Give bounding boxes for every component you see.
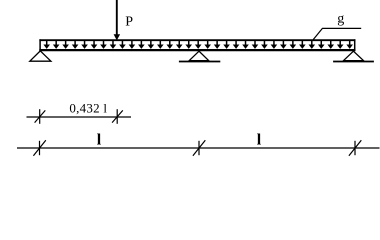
wire: distributed load arrow 33 head (346, 45, 353, 49)
bottom dimension left tick vertical (39, 141, 41, 155)
wire: distributed load arrow 23 shaft (254, 41, 256, 46)
wire: distributed load arrow 31 head (327, 45, 334, 49)
wire: distributed load arrow 7 shaft (103, 41, 105, 46)
wire: distributed load arrow 8 head (110, 45, 117, 49)
wire: distributed load arrow 16 shaft (188, 41, 190, 46)
point load P arrow shaft (116, 0, 118, 35)
wire: distributed load arrow 1 head (43, 45, 50, 49)
wire: distributed load arrow 24 shaft (263, 41, 265, 46)
dimension 0,432l left tick vertical (39, 109, 41, 124)
wire: distributed load arrow 17 head (195, 45, 202, 49)
wire: distributed load arrow 15 head (176, 45, 183, 49)
wire: distributed load arrow 11 head (138, 45, 145, 49)
point load P arrowhead (114, 34, 121, 40)
wire: distributed load arrow 5 shaft (84, 41, 86, 46)
wire: distributed load arrow 27 head (290, 45, 297, 49)
wire: distributed load arrow 14 shaft (169, 41, 171, 46)
wire: distributed load arrow 4 shaft (74, 41, 76, 46)
wire: distributed load arrow 27 shaft (292, 41, 294, 46)
bottom dimension middle tick vertical (198, 141, 200, 155)
dimension line 0,432 l (27, 116, 132, 118)
wire: distributed load arrow 32 shaft (339, 41, 341, 46)
wire: distributed load arrow 18 shaft (207, 41, 209, 46)
bottom dimension middle tick slash (193, 140, 205, 156)
wire: distributed load arrow 12 shaft (150, 41, 152, 46)
beam right end vertical edge (354, 39, 356, 51)
label g leader line (313, 28, 322, 39)
left support (pin) triangle (30, 51, 51, 61)
wire: distributed load arrow 3 shaft (65, 41, 67, 46)
bottom dimension line (spans l + l) (17, 147, 380, 149)
beam (thick horizontal member) (39, 49, 355, 51)
svg-text:l: l (97, 131, 102, 148)
wire: distributed load arrow 3 head (62, 45, 69, 49)
wire: distributed load arrow 21 shaft (235, 41, 237, 46)
wire: distributed load arrow 29 shaft (311, 41, 313, 46)
wire: distributed load arrow 10 head (129, 45, 136, 49)
label g underline (322, 27, 361, 29)
middle support (roller) triangle (189, 51, 209, 61)
wire: distributed load arrow 25 head (271, 45, 278, 49)
wire: distributed load arrow 4 head (72, 45, 79, 49)
wire: distributed load arrow 22 head (242, 45, 249, 49)
middle support ground line (179, 61, 220, 63)
wire: distributed load arrow 7 head (100, 45, 107, 49)
wire: distributed load arrow 6 shaft (93, 41, 95, 46)
wire: distributed load arrow 19 shaft (216, 41, 218, 46)
right support (roller) triangle (343, 51, 363, 61)
wire: distributed load arrow 9 shaft (121, 41, 123, 46)
wire: distributed load arrow 30 shaft (320, 41, 322, 46)
bottom dimension right tick vertical (354, 141, 356, 155)
dimension 0,432l left tick slash (35, 110, 46, 122)
beam left end vertical edge (39, 39, 41, 51)
wire: distributed load arrow 6 head (91, 45, 98, 49)
right support ground line (333, 61, 374, 63)
wire: distributed load arrow 12 head (148, 45, 155, 49)
wire: distributed load arrow 31 shaft (330, 41, 332, 46)
wire: distributed load arrow 17 shaft (197, 41, 199, 46)
wire: distributed load arrow 5 head (81, 45, 88, 49)
wire: distributed load arrow 26 head (280, 45, 287, 49)
wire: distributed load arrow 20 head (223, 45, 230, 49)
wire: distributed load arrow 2 head (53, 45, 60, 49)
dimension 0,432l right tick slash (112, 110, 123, 122)
svg-text:l: l (257, 131, 262, 148)
bottom dimension right tick slash (349, 140, 361, 156)
svg-text:P: P (125, 14, 133, 29)
wire: distributed load arrow 20 shaft (226, 41, 228, 46)
wire: distributed load arrow 2 shaft (55, 41, 57, 46)
wire: distributed load arrow 13 shaft (159, 41, 161, 46)
wire: distributed load arrow 15 shaft (178, 41, 180, 46)
wire: distributed load arrow 8 shaft (112, 41, 114, 46)
bottom dimension left tick slash (33, 140, 45, 156)
wire: distributed load arrow 23 head (252, 45, 259, 49)
wire: distributed load arrow 16 head (185, 45, 192, 49)
svg-text:0,432 l: 0,432 l (69, 101, 107, 116)
wire: distributed load arrow 33 shaft (349, 41, 351, 46)
wire: distributed load arrow 22 shaft (245, 41, 247, 46)
wire: distributed load arrow 26 shaft (282, 41, 284, 46)
dimension 0,432l right tick vertical (116, 109, 118, 124)
wire: distributed load arrow 32 head (337, 45, 344, 49)
wire: distributed load arrow 10 shaft (131, 41, 133, 46)
wire: distributed load arrow 14 head (166, 45, 173, 49)
wire: distributed load arrow 11 shaft (140, 41, 142, 46)
wire: distributed load arrow 1 shaft (46, 41, 48, 46)
wire: distributed load arrow 30 head (318, 45, 325, 49)
wire: distributed load arrow 18 head (204, 45, 211, 49)
distributed load top line (39, 39, 355, 41)
wire: distributed load arrow 19 head (214, 45, 221, 49)
wire: distributed load arrow 29 head (309, 45, 316, 49)
svg-text:g: g (337, 12, 344, 27)
wire: distributed load arrow 25 shaft (273, 41, 275, 46)
wire: distributed load arrow 21 head (233, 45, 240, 49)
wire: distributed load arrow 28 shaft (301, 41, 303, 46)
wire: distributed load arrow 9 head (119, 45, 126, 49)
wire: distributed load arrow 24 head (261, 45, 268, 49)
wire: distributed load arrow 28 head (299, 45, 306, 49)
wire: distributed load arrow 13 head (157, 45, 164, 49)
